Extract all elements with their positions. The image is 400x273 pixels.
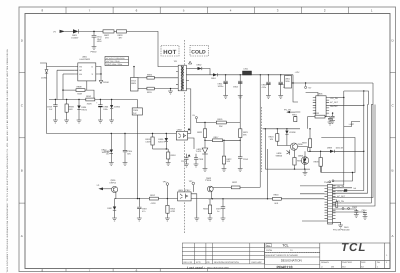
svg-text:SGND: SGND [103,81,110,84]
wire VS to D801 [65,30,74,32]
svg-text:TCL: TCL [282,244,288,248]
wire secondary bus [217,74,293,76]
svg-text:470R: 470R [170,210,175,213]
wire R817 to right column [223,139,241,141]
optocoupler U802 lower [178,192,192,201]
svg-text:LNK625PG: LNK625PG [80,58,91,61]
pin stubs CN801 right [333,186,336,218]
wire riser x307 [307,117,309,129]
ground below C821 [137,218,142,221]
svg-text:SIZE: SIZE [361,261,366,264]
svg-text:PS_ON: PS_ON [284,109,292,112]
wire into CN801 pin rows left [300,185,325,187]
transistor Q804 [207,186,213,192]
svg-text:R812: R812 [150,194,156,197]
svg-text:C808: C808 [133,109,139,112]
svg-text:470R: 470R [151,202,156,205]
svg-text:WU: WU [342,266,346,269]
resistor R806 [147,76,154,79]
inductor L851 [243,71,252,75]
ground below R818 [166,163,171,166]
ground below C818 [194,164,199,167]
svg-text:10K: 10K [226,160,230,163]
wire snubber top to primary rail [133,67,135,78]
resistor R825 [309,129,311,139]
svg-text:R837: R837 [302,142,308,145]
wire R831 to riser [240,186,260,188]
resistor R813 [166,199,168,206]
svg-text:SH: SH [377,261,380,264]
svg-text:U804: U804 [178,189,184,192]
svg-text:R819: R819 [217,118,223,121]
wire U806 top to +5 rail [306,93,318,96]
wire R808 to C811 column [85,90,94,99]
capacitor C814 [124,134,126,151]
svg-text:LN02: LN02 [349,123,355,126]
svg-text:ECO: ECO [196,261,201,264]
wire U802 lower stub [188,138,195,149]
frame top tick marks [66,7,348,14]
wire jog LN02 [344,122,360,127]
capacitor C861 under IC [332,113,334,116]
ground below CN801 [338,225,343,228]
regulator U852 [285,76,292,89]
ground below R813 [165,218,170,221]
svg-text:B: B [21,169,23,173]
component blob right of connector [336,202,338,208]
capacitor C860 [329,117,331,118]
resistor R818 [167,148,169,150]
svg-text:1000u: 1000u [218,85,225,88]
svg-text:D852: D852 [197,63,203,66]
node junction at C811 [93,31,95,33]
capacitor block C808 [132,108,142,115]
svg-text:13V: 13V [106,153,110,156]
svg-text:C863: C863 [352,206,358,209]
svg-text:R806: R806 [147,73,153,76]
small parts under bus left [294,112,301,122]
svg-text:SI8050: SI8050 [276,155,283,158]
node pin circles above connector [329,181,331,183]
frame row letters right [392,39,395,239]
IC U806 [316,96,326,117]
capacitor C806 electrolytic [99,100,101,105]
resistor R834 row [308,116,316,118]
svg-text:C818: C818 [198,158,204,161]
title block outline [265,243,390,269]
svg-text:R839: R839 [314,161,320,164]
svg-text:R840: R840 [274,194,280,197]
svg-text:ZD802: ZD802 [114,106,121,109]
svg-text:R820: R820 [197,131,203,134]
svg-text:C852: C852 [233,86,239,89]
svg-text:C1815: C1815 [205,179,212,182]
wire lower box rect [321,138,355,173]
svg-text:AC_DET: AC_DET [330,101,339,104]
resistor R808 [76,89,85,92]
wire low rail left [115,198,178,200]
frame left tick marks [19,72,25,203]
svg-text:1N4148: 1N4148 [336,147,344,150]
connector CN801 [328,185,333,225]
svg-text:PG: PG [207,261,210,264]
svg-text:R818: R818 [171,154,177,157]
svg-text:U802: U802 [177,128,183,131]
svg-text:VAC 90V / 264V: VAC 90V / 264V [106,60,120,63]
svg-text:DATE APP: DATE APP [252,261,263,264]
wire left column BP down to bus [56,70,58,99]
ground below C814 [123,163,128,166]
transistor Q802 [290,143,297,150]
wire +12 rail to right bundle [293,75,373,102]
HOT label dashed box [161,46,179,57]
ground below C861 [330,121,335,124]
svg-text:REV LTR: REV LTR [184,261,193,264]
svg-text:+5V: +5V [308,87,312,90]
wire U852 out to +5 rail [292,82,294,84]
op-amp U801 controller [78,63,96,81]
resistor R826 on rail [273,197,282,200]
resistor R823 [276,129,278,134]
main low bus wire [49,99,138,101]
wire bus corner into C808 box [137,100,139,108]
ground below U803 [203,169,208,172]
svg-text:10K: 10K [270,138,274,141]
svg-text:KSP44: KSP44 [110,182,117,185]
svg-text:CHECKED: CHECKED [342,261,353,264]
resistor R803 [117,30,127,33]
wire U802 lower right to ground [191,194,197,218]
wire D801 to R802 [78,30,103,32]
wire bus into U852 [287,74,289,77]
diode D807 [114,199,116,207]
wire snubber to R811 [138,88,147,90]
capacitor C822 [222,199,224,207]
zener ZD801 on left column [46,67,48,70]
resistor R820 [203,129,206,138]
revision table [182,243,264,264]
wire U801 pin EN to left column [63,73,75,75]
svg-text:COLD: COLD [191,50,206,56]
wire secondary top [189,68,198,70]
diode D806 [165,134,167,139]
resistor R817 [213,139,223,142]
wire block bottom rail [265,168,310,170]
ground below C863 [354,215,359,218]
svg-text:THIS DOCUMENT CONTAINS INFORMA: THIS DOCUMENT CONTAINS INFORMATION PROPR… [6,49,9,273]
shunt reg U803 TL431 [202,148,208,153]
svg-text:B: B [392,169,394,173]
wire R811 to transformer [154,88,176,90]
wire CN801 right outputs [333,187,353,189]
isolation dashed line hot/cold [183,40,185,233]
optocoupler U802 upper [176,131,187,140]
diode D810 right of connector [344,189,347,191]
snubber block C812 [131,78,139,92]
wire mid rail with D809 [308,150,331,152]
svg-text:HOT: HOT [163,49,176,56]
pin stubs U806 left [313,98,316,114]
node 5V pin circle [195,117,197,119]
diode D801 [73,29,78,33]
dashed line section 2 [261,107,263,172]
transformer pin stubs right [186,69,189,89]
wire bundle right vertical [333,83,374,198]
pin stubs CN801 left [325,186,328,221]
wire low rail right continues [191,198,208,200]
svg-text:A: A [392,234,394,238]
wire D852 jog to bus [202,69,210,75]
wire Q801 emitter to low rail [115,192,116,198]
AC input voltage table [105,57,129,66]
svg-text:+5V_SB: +5V_SB [337,185,345,188]
test point TP3 [192,182,195,185]
frame column numbers bottom [42,268,138,272]
svg-text:BAV21: BAV21 [158,141,165,144]
transistor Q805b [301,157,309,165]
resistor R809 [66,100,68,105]
svg-text:TCL: TCL [341,242,366,254]
ground below R822 [222,169,227,172]
resistor R831 [231,186,240,189]
wire into R808 [63,89,76,91]
capacitor C864 [364,211,366,214]
ground below block rail [304,169,306,172]
transistor Q801 [112,186,118,192]
svg-text:Q806: Q806 [298,155,304,158]
wire inner rect top [344,91,369,105]
wire long vertical from C808 to Q801 net [137,115,139,199]
diode D809 [330,150,334,153]
svg-text:D851: D851 [211,77,217,80]
wire R802 to R803 [114,30,117,32]
ground below C811 [92,47,97,50]
ground below C806 [98,120,103,123]
svg-text:R811: R811 [147,91,153,94]
svg-text:MANUFACTURER OF P.C.BOARD: MANUFACTURER OF P.C.BOARD [265,254,298,257]
svg-text:Last used :: Last used : [187,266,205,270]
ground below R829 [208,218,213,221]
node +5V test pin [305,86,307,88]
svg-text:4.02K: 4.02K [145,141,151,144]
transistor glyph U806 [287,150,290,155]
resistor R821 [239,129,242,138]
svg-text:+12V: +12V [295,71,301,74]
wire feedback long at 133.5 [47,133,177,135]
ground below C860 [328,122,333,125]
ground below D805 [77,120,82,123]
ground below C851 [223,96,228,99]
wire feedback top from 5V node [196,122,205,124]
ground below ZD803 [109,163,114,166]
svg-text:R808: R808 [77,86,83,89]
ground below C819 [53,120,58,123]
wire Q804 emitter to low rail [210,192,212,199]
svg-text:A: A [21,234,23,238]
svg-text:FROM: FROM [266,249,272,252]
svg-text:39K: 39K [219,125,223,128]
diode D852 [198,67,202,70]
wire CN801 right output 209 [333,209,366,212]
zener ZD802 [111,100,113,106]
title block small fields [266,244,272,247]
test point TP2 [166,183,169,186]
wire verticals bundle [333,98,344,186]
wire riser x352 [333,173,353,182]
ground below C855 [278,96,283,99]
svg-text:R817: R817 [214,136,220,139]
title block dashed row [265,252,320,254]
ground right of opto [194,218,199,221]
wire U806 right pins to bundle [329,97,344,99]
wire R817 row [205,139,213,141]
capacitor C863 [355,209,357,211]
warning triangle near T01 [189,61,192,64]
diode D805 [78,100,80,106]
ground triangle at U801 source [99,81,102,84]
svg-text:PC817: PC817 [184,189,191,192]
svg-text:AC_DET: AC_DET [337,195,346,198]
svg-text:REVISION DESCRIPTION: REVISION DESCRIPTION [214,261,239,264]
capacitor C852 [238,80,242,82]
ground below D807 [112,218,117,221]
wire U802 out to secondary column [188,133,191,135]
ground below C853 [266,96,271,99]
svg-text:RS1M: RS1M [81,108,87,111]
svg-text:750R: 750R [77,93,82,96]
svg-text:R835: R835 [297,160,303,163]
resistor R829 [209,199,211,205]
capacitor C851 [225,75,227,81]
resistor R811 [147,87,154,90]
svg-text:EN: EN [79,73,82,76]
svg-text:PS_ON: PS_ON [337,200,345,203]
svg-text:R832: R832 [232,181,238,184]
svg-text:R836: R836 [314,112,320,115]
svg-text:ZD801: ZD801 [41,77,48,80]
resistor R827 on rail [149,197,158,200]
diode D811 on bottom [303,159,306,162]
capacitor C855 [280,75,282,82]
frame bottom tick marks [66,269,207,272]
wire low rail to connector [208,198,325,200]
capacitor C816 [238,157,242,159]
wire feedback top rail [205,122,240,124]
wire lower feedback joint [153,148,169,150]
ground below R809 [64,120,69,123]
pin stubs U801 left [75,67,78,75]
wire Q805b base riser [304,151,306,157]
wire secondary main [189,74,213,76]
frame right tick marks [390,72,396,203]
svg-text:C815: C815 [181,160,187,163]
capacitor C815 [186,154,188,158]
wire snubber to R806 [138,77,147,79]
wire CN801 bottom to ground [333,222,341,225]
resistor R838 [320,151,322,157]
wire secondary aux column [189,89,191,134]
resistor R819 [216,121,226,124]
wire inner rect left [343,91,345,105]
wire R806 to transformer [154,77,176,79]
wire block left vertical [264,129,266,169]
wire U801 pin BP to left column [57,69,75,71]
svg-text:D807: D807 [107,207,113,210]
wire U801 pin FB to left column [40,63,75,67]
svg-text:TL431: TL431 [196,150,203,153]
svg-text:C816: C816 [243,158,249,161]
wire Q804 collector row [213,186,232,188]
svg-text:FREQ 50Hz / 60Hz: FREQ 50Hz / 60Hz [106,63,122,66]
ground below C815 [184,164,189,167]
capacitor C853 [267,75,269,82]
wire riser from bus to Q804 row [259,75,261,188]
wire D809 to bundle [334,150,364,152]
test point circles right [342,208,344,210]
svg-text:1N4007: 1N4007 [71,37,79,40]
warning triangle near U802 [188,128,191,130]
ground below C864 [363,217,368,220]
svg-text:U805: U805 [318,93,324,96]
svg-text:C864: C864 [362,209,368,212]
svg-text:GND: GND [344,226,349,229]
resistor R825b [294,150,296,157]
svg-text:R810: R810 [86,95,92,98]
svg-text:R805: R805 [131,82,137,85]
svg-text:U801: U801 [82,56,88,59]
wire riser x267 [267,149,269,199]
diode D851 [213,73,217,76]
svg-text:R841 C829 D810 Q806: R841 C829 D810 Q806 [207,266,230,269]
svg-text:PB40118: PB40118 [277,265,294,270]
section Q802 rail [263,128,301,130]
svg-text:P/N: 08-PB401A8: P/N: 08-PB401A8 [333,229,350,232]
wire Q802 out right [298,147,308,152]
ground below C852 [238,96,243,99]
ground below C822 [221,218,226,221]
wire VS2 to Q801 [103,188,112,190]
transformer pin stubs left [176,67,178,89]
svg-text:DESIGNATION: DESIGNATION [281,259,302,263]
wire U801 drain to SGND column [99,67,101,81]
capacitor C818 [195,154,197,158]
wire right feedback column from bus [239,75,241,129]
resistor R810 on bus [86,98,95,101]
wire CN801 right output 206 [333,105,376,207]
svg-text:400V: 400V [97,40,102,43]
resistor R822 [223,140,225,156]
ground below ZD802 [109,120,114,123]
svg-text:AC INPUT 100V-240V: AC INPUT 100V-240V [106,57,125,60]
frame column numbers top [42,9,373,13]
zener ZD803 [110,134,112,150]
ground below C816 [238,169,243,172]
pin stubs U801 right [96,67,99,75]
ground stub under transformer left [170,89,172,91]
svg-text:R851: R851 [292,114,298,117]
svg-text:50V: 50V [127,153,131,156]
svg-text:R833: R833 [203,208,209,211]
COLD label dashed box [190,46,209,57]
wire left column EN down to bus [62,74,64,100]
frame row letters left [21,39,24,239]
zener ZD805 [286,129,288,131]
pin stubs U806 right [326,98,329,114]
svg-text:PGND: PGND [91,51,98,54]
capacitor C821 [138,199,140,207]
wire left feedback column [204,123,206,129]
svg-text:DRAWN: DRAWN [321,261,329,264]
